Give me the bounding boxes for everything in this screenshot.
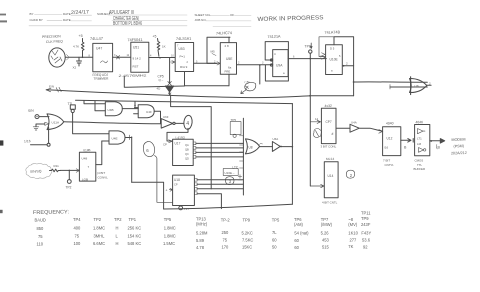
junction node osc/R1: [82, 57, 84, 59]
svg-text:/16: /16: [384, 146, 389, 150]
svg-text:E/N: E/N: [49, 85, 54, 89]
inverter U5 triangle (dark): [165, 86, 173, 92]
wire U9A output to U10A: [288, 58, 326, 60]
svg-text:B: B: [404, 146, 407, 150]
svg-text:a: a: [283, 71, 285, 75]
svg-text:U14: U14: [328, 174, 334, 178]
svg-text:TRIMMER: TRIMMER: [93, 77, 109, 81]
svg-text:15KC: 15KC: [242, 245, 252, 250]
svg-text:U6A: U6A: [273, 137, 279, 141]
svg-text:11: 11: [127, 54, 130, 57]
svg-text:(MV): (MV): [348, 222, 358, 227]
svg-text:3: 3: [114, 54, 116, 57]
vertical distribution wire from TP8 node: [309, 59, 311, 186]
svg-text:4: 4: [274, 52, 276, 56]
label MODEM (PSM) 202A/212: [451, 138, 467, 156]
svg-text:14: 14: [315, 117, 319, 121]
svg-text:170: 170: [222, 245, 230, 250]
circled node 2: [346, 170, 354, 178]
feedback loop bottom edge: [164, 204, 293, 209]
AND gate U4F: [138, 105, 154, 118]
output wire to modem with arrow: [430, 139, 445, 144]
svg-text:CLK FREQ: CLK FREQ: [46, 39, 63, 44]
wire oscillator to U47: [66, 56, 93, 58]
AND gate U4E: [109, 131, 125, 144]
counter box 4040: [383, 127, 401, 156]
clock wire into U13: [310, 184, 324, 187]
svg-text:X2: X2: [73, 66, 77, 70]
wire U53 output to U5E clock: [194, 62, 217, 64]
counter U17 box: [173, 139, 194, 165]
svg-text:TP2: TP2: [66, 186, 72, 190]
svg-text:TP8: TP8: [305, 45, 311, 49]
test point pad below U18: [179, 206, 183, 210]
svg-text:U16E→: U16E→: [225, 171, 236, 175]
svg-text:5.89: 5.89: [196, 238, 205, 243]
wire buffer U6A to feedback edge: [282, 146, 293, 148]
ground symbol: [33, 127, 39, 130]
svg-text:548 KC: 548 KC: [128, 241, 142, 246]
flip-flop U10A box: [326, 45, 343, 75]
circled node 3: [225, 177, 234, 185]
svg-text:PRECISION: PRECISION: [42, 34, 61, 39]
wire U8 output: [259, 146, 272, 148]
wire U4E output junction: [125, 137, 132, 139]
svg-text:74LA74B: 74LA74B: [324, 30, 340, 35]
wire U19 output up to U4E: [96, 141, 102, 165]
svg-text:CNT%: CNT%: [385, 163, 394, 167]
svg-text:75: 75: [75, 234, 80, 239]
svg-text:7L: 7L: [272, 230, 277, 235]
label FREQ ADJ TRIMMER: [92, 73, 109, 81]
junction node on wire: [159, 57, 161, 59]
svg-text:WORK IN PROGRESS: WORK IN PROGRESS: [257, 15, 323, 23]
pin number labels: [89, 45, 342, 65]
box U16E: [223, 169, 238, 176]
svg-text:FREQUENCY:: FREQUENCY:: [33, 209, 69, 216]
one-shot U9A box: [273, 50, 288, 77]
svg-text:2: 2: [346, 62, 348, 66]
svg-text:TP2: TP2: [94, 217, 102, 222]
svg-text:B: B: [438, 146, 441, 150]
wire U10A Q output: [343, 65, 354, 67]
svg-text:256 KC: 256 KC: [128, 226, 142, 231]
svg-text:74LL47: 74LL47: [90, 36, 103, 41]
svg-text:1/16: 1/16: [24, 139, 31, 143]
svg-text:2.4576MHz: 2.4576MHz: [118, 74, 147, 78]
svg-text:+5: +5: [153, 35, 157, 39]
left page-edge marks: [0, 14, 7, 214]
svg-text:OF: OF: [230, 13, 234, 17]
arrow marker above TP8: [310, 43, 312, 47]
AND gate U4B: [105, 102, 122, 116]
svg-text:TP-2: TP-2: [221, 218, 231, 223]
wire riser between counters: [155, 156, 173, 203]
bus wire L2 into feedback rectangle: [76, 100, 293, 103]
divider box 4x32: [321, 108, 336, 143]
svg-text:(MHz): (MHz): [196, 222, 208, 227]
svg-text:QD: QD: [185, 157, 189, 161]
clock arrows U10A: [322, 53, 326, 59]
svg-text:7K: 7K: [348, 244, 353, 249]
svg-text:(PSM): (PSM): [453, 144, 464, 148]
svg-text:U4E: U4E: [112, 137, 118, 141]
svg-text:1.8MC: 1.8MC: [164, 234, 176, 239]
svg-text:6.6MC: 6.6MC: [93, 241, 105, 246]
bus wire L1 with left arrow E/N: [46, 90, 353, 98]
capacitor C1 to ground: [77, 57, 82, 66]
svg-text:74LHC74: 74LHC74: [216, 31, 232, 36]
input cloud SIN/SQ: [26, 163, 52, 178]
svg-text:60: 60: [294, 238, 299, 243]
svg-text:JOB NO.: JOB NO.: [195, 18, 207, 22]
svg-text:400: 400: [74, 226, 82, 231]
svg-text:DATE: DATE: [63, 18, 71, 22]
svg-text:CP7: CP7: [326, 120, 332, 124]
svg-text:U51: U51: [133, 45, 139, 49]
buffer U6F triangle: [161, 119, 173, 129]
svg-text:7.5KC: 7.5KC: [242, 238, 253, 243]
svg-text:U9A: U9A: [276, 64, 283, 68]
svg-text:250: 250: [222, 230, 230, 235]
svg-text:U6: U6: [415, 85, 419, 89]
svg-text:4 BIT CNTL: 4 BIT CNTL: [322, 201, 338, 205]
svg-text:(/MW): (/MW): [321, 222, 333, 227]
svg-text:TP7: TP7: [184, 207, 190, 211]
counter box U13: [324, 162, 338, 198]
input stub U53 pin 2: [171, 61, 176, 64]
circled node 4: [183, 115, 193, 130]
wire inverter to bus with arrowhead: [169, 92, 171, 95]
svg-text:CHKD BY: CHKD BY: [30, 18, 43, 22]
wire NAND U4E output down: [131, 137, 133, 182]
wire U10A to OR gate U6 input A: [354, 81, 428, 83]
svg-text:74F5041: 74F5041: [127, 38, 142, 42]
svg-text:a: a: [331, 69, 333, 73]
svg-text:54 (nat): 54 (nat): [294, 231, 309, 236]
svg-text:U47: U47: [96, 47, 102, 51]
svg-text:Q→: Q→: [159, 78, 164, 82]
crystal oscillator Y1: [49, 48, 65, 67]
svg-text:F43Y: F43Y: [361, 231, 371, 236]
wire OR gate U6 input B: [390, 86, 427, 88]
svg-text:TP2: TP2: [114, 217, 122, 222]
svg-text:4.78: 4.78: [196, 245, 205, 250]
svg-text:U48: U48: [82, 157, 88, 161]
wire circled4 down to U17 clock: [167, 128, 188, 141]
svg-text:QA: QA: [185, 143, 189, 147]
test point TP2: [67, 180, 71, 184]
svg-text:R11: R11: [54, 164, 60, 168]
svg-text:TP4: TP4: [73, 217, 81, 222]
svg-text:LM: LM: [417, 142, 422, 146]
svg-text:#: #: [332, 132, 334, 136]
header form ruled lines: [29, 15, 251, 27]
svg-text:2 8: 2 8: [225, 44, 230, 48]
svg-text:(AM): (AM): [294, 222, 304, 227]
svg-text:154 KC: 154 KC: [128, 234, 142, 239]
svg-text:QB: QB: [185, 148, 189, 152]
svg-text:LT1: LT1: [417, 137, 422, 141]
svg-text:MC14: MC14: [326, 157, 335, 161]
svg-text:TP11: TP11: [361, 211, 371, 216]
svg-text:1.8MC: 1.8MC: [164, 226, 176, 231]
wire U4B output: [122, 108, 138, 110]
svg-text:U11A: U11A: [52, 121, 60, 125]
wire U51 to U53: [149, 57, 175, 59]
svg-text:110: 110: [37, 241, 44, 246]
svg-text:P=1: P=1: [180, 55, 186, 59]
junction node Q: [259, 64, 261, 66]
wire U51 bottom feedback to bus: [124, 77, 184, 88]
wire U5E Q output to U9A: [237, 64, 273, 66]
counter U18 box: [173, 175, 195, 205]
wire U4E input 2: [102, 140, 109, 142]
svg-text:60: 60: [294, 245, 299, 250]
svg-text:6: 6: [293, 56, 295, 59]
svg-text:BY: BY: [30, 12, 34, 16]
svg-text:4x32: 4x32: [324, 104, 332, 108]
label PRECISION CLK FREQ: [42, 34, 63, 44]
svg-text:3 BIT CONL: 3 BIT CONL: [321, 144, 337, 148]
svg-text:3: 3: [262, 62, 264, 65]
one-shot U9A outer loop: [265, 42, 288, 81]
svg-text:U4F: U4F: [146, 110, 152, 114]
svg-text:H: H: [116, 241, 119, 246]
wire SIN pad to OR gate U11A: [39, 116, 49, 118]
svg-text:60: 60: [272, 238, 277, 243]
riser from bus L1 to pin column: [171, 95, 212, 189]
label CMOS TTL BUFFER: [414, 159, 426, 172]
wires U4F inputs: [134, 108, 139, 114]
svg-text:453: 453: [322, 238, 330, 243]
svg-text:74121A: 74121A: [267, 35, 281, 39]
buffer U4A: [336, 127, 350, 129]
svg-text:MODEM: MODEM: [451, 138, 465, 142]
wires U4B inputs: [84, 101, 105, 111]
svg-text:QC: QC: [185, 152, 189, 156]
flip-flop U5E 74LHC74 feedback loop: [207, 37, 230, 63]
svg-text:TP9: TP9: [243, 218, 251, 223]
svg-text:D 5: D 5: [330, 47, 335, 51]
svg-text:CP: CP: [174, 183, 178, 187]
label 7 BIT CNT: [383, 159, 394, 168]
wire U53 bottom pin down and right: [185, 72, 230, 86]
IC U47 oscillator box 74LL47: [93, 43, 113, 71]
svg-text:BUFFER: BUFFER: [414, 167, 426, 171]
OR gate U8 input bar: [242, 118, 244, 195]
frequency table: [35, 211, 372, 251]
pin stubs on bar: [240, 136, 244, 168]
small opamp symbol inside 4046: [419, 148, 424, 153]
svg-text:TP5: TP5: [272, 218, 280, 223]
svg-text:TP5: TP5: [164, 217, 172, 222]
svg-text:9 14 2: 9 14 2: [133, 57, 142, 61]
feedback loop right edge: [291, 104, 293, 205]
junction node loop/busA: [353, 81, 355, 83]
svg-text:U5E: U5E: [226, 57, 233, 61]
svg-text:4046: 4046: [415, 120, 423, 124]
svg-text:5: 5: [339, 55, 341, 58]
svg-text:U10E: U10E: [330, 58, 339, 62]
label 4 BIT CONVL: [97, 171, 108, 179]
svg-text:U4B: U4B: [108, 108, 114, 112]
svg-text:5.26: 5.26: [321, 231, 330, 236]
IC U53 counter 74LS161: [175, 43, 193, 72]
svg-text:U17: U17: [175, 141, 181, 145]
svg-text:1.8MC: 1.8MC: [93, 226, 105, 231]
svg-text:2/24/17: 2/24/17: [71, 9, 89, 16]
svg-text:U8: U8: [249, 146, 253, 150]
svg-text:1K: 1K: [162, 45, 166, 49]
svg-text:92: 92: [363, 245, 368, 250]
wires U18 outputs to OR bar: [197, 180, 243, 209]
svg-text:75: 75: [38, 234, 43, 239]
inverter bubble on U11A input 2: [45, 122, 49, 125]
svg-text:74LS161: 74LS161: [176, 37, 191, 41]
svg-text:M5: M5: [211, 50, 215, 54]
svg-text:50: 50: [272, 245, 277, 250]
svg-text:6: 6: [146, 148, 149, 153]
pin squares U17 right: [193, 142, 196, 145]
wire U4A to 4040: [360, 128, 383, 131]
header form printed labels: [30, 12, 235, 22]
wire U11A output long line to buffer U6F: [64, 122, 161, 124]
svg-text:SIN: SIN: [28, 109, 34, 113]
svg-text:2: 2: [238, 62, 240, 65]
svg-text:RST: RST: [133, 65, 139, 69]
svg-text:5.28M: 5.28M: [196, 231, 208, 236]
converter box U19: [79, 152, 95, 181]
wire R11 to U19 with junction: [60, 169, 79, 171]
wires U17 outputs to OR bar: [196, 143, 244, 157]
wire buffer to circled 4: [175, 122, 183, 124]
svg-text:3MHL: 3MHL: [94, 234, 106, 239]
svg-text:U19B: U19B: [83, 148, 91, 152]
svg-text:U4A: U4A: [351, 121, 357, 125]
svg-text:5.2KC: 5.2KC: [242, 231, 253, 236]
svg-text:1.5MC: 1.5MC: [163, 241, 175, 246]
wire input 2 from ground: [36, 124, 45, 127]
wire U4F output to buffer: [154, 111, 160, 124]
svg-text:7: 7: [88, 165, 90, 169]
svg-text:L: L: [116, 234, 119, 239]
svg-text:U53: U53: [179, 47, 185, 51]
wire TTL pad down to gate U4E: [73, 113, 109, 134]
svg-text:PRE: PRE: [225, 70, 231, 74]
svg-text:+: +: [166, 189, 168, 193]
svg-text:1K10: 1K10: [348, 231, 358, 236]
svg-text:LGB: LGB: [82, 178, 88, 182]
svg-text:515: 515: [322, 245, 330, 250]
flip-flop U10A feedback loop: [334, 37, 354, 96]
svg-text:75: 75: [223, 238, 228, 243]
junction node TP8: [310, 58, 312, 60]
svg-text:DATE: DATE: [63, 12, 71, 16]
flip-flop U5E box: [220, 43, 236, 75]
OR gate U11A: [47, 114, 64, 130]
svg-text:TP9: TP9: [361, 216, 369, 221]
svg-text:+5: +5: [79, 34, 83, 38]
clock arrow into 4x32: [310, 120, 320, 123]
IC U51 divider 74LS041: [131, 42, 149, 72]
svg-text:BOTTOM PL BD#6: BOTTOM PL BD#6: [113, 21, 142, 27]
svg-text:U18: U18: [174, 178, 180, 182]
scribble blob near 4x32: [313, 128, 321, 137]
buffer U6A: [272, 142, 280, 152]
svg-text:53.6: 53.6: [362, 238, 371, 243]
svg-text:202A/212: 202A/212: [451, 151, 467, 156]
wire U47 to U51 with X junction: [113, 56, 131, 58]
buffer box 4046: [415, 125, 430, 156]
wire 4040 to 4046 with B label: [401, 139, 413, 143]
svg-text:850: 850: [37, 226, 45, 231]
svg-text:U12: U12: [387, 137, 393, 141]
circled node 6: [143, 141, 154, 156]
svg-text:SIN/SQ: SIN/SQ: [30, 169, 42, 174]
OR gate U8: [245, 139, 259, 154]
svg-text:2: 2: [350, 173, 353, 178]
svg-text:SHEET NO.: SHEET NO.: [195, 13, 211, 17]
svg-text:U6F: U6F: [163, 115, 169, 119]
svg-text:4D: 4D: [157, 87, 162, 91]
OR gate U6: [410, 78, 427, 92]
svg-text:4040: 4040: [386, 121, 394, 125]
svg-text:4: 4: [186, 121, 189, 127]
svg-text:CP: CP: [163, 143, 167, 147]
wire 1/16 with pad: [31, 144, 48, 146]
handwritten date 2/24/17: [71, 9, 324, 27]
svg-text:277: 277: [350, 238, 358, 243]
pin mark near circled 3: [238, 175, 242, 180]
pin squares U18 right: [194, 178, 197, 181]
wire junction down to CP3 arrow: [259, 65, 261, 84]
svg-text:H: H: [116, 226, 119, 231]
small buffer symbol inside 4046: [418, 129, 426, 134]
wire U6 output stub: [427, 84, 431, 86]
X junction mark: [168, 82, 172, 86]
feedback loop left riser: [132, 182, 164, 209]
svg-text:4.7K: 4.7K: [73, 45, 79, 49]
svg-text:100: 100: [74, 241, 82, 246]
svg-text:TP1: TP1: [129, 217, 137, 222]
svg-text:243F: 243F: [361, 222, 371, 227]
wire tap down to inverter U5: [169, 58, 171, 84]
svg-text:CONVL: CONVL: [98, 175, 109, 179]
svg-text:R/A 9: R/A 9: [180, 65, 188, 69]
svg-text:BAUD: BAUD: [35, 218, 46, 223]
svg-text:2: 2: [187, 61, 189, 64]
svg-text:7 BIT: 7 BIT: [383, 159, 390, 163]
clock input arrow U5E: [217, 62, 221, 65]
